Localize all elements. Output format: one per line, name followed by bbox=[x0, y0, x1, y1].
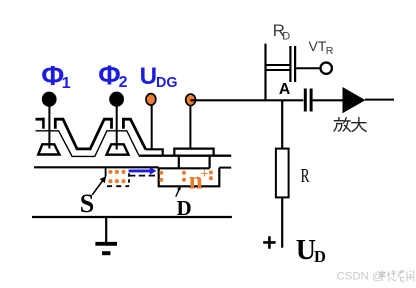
node UDG label bbox=[140, 63, 178, 91]
svg-text:1: 1 bbox=[62, 75, 71, 92]
RD label bbox=[273, 21, 291, 42]
wire UDG bbox=[151, 106, 153, 150]
wire capacitor to amplifier bbox=[313, 99, 343, 101]
amplifier output wire bbox=[365, 99, 394, 101]
reset transistor gate plate bbox=[294, 46, 296, 82]
S pointer arrow bbox=[92, 181, 102, 195]
wire output node to diffusion bbox=[189, 106, 191, 149]
electrode ribbon 2 (thick outline) bbox=[123, 119, 145, 149]
ground bar 1 bbox=[95, 242, 117, 246]
amplifier label (fang da) bbox=[334, 117, 366, 131]
n+ label bbox=[189, 165, 209, 194]
svg-text:Φ: Φ bbox=[98, 60, 120, 91]
reset transistor VTR source/drain stubs bbox=[266, 64, 291, 66]
electrode ribbons bottom boundary (thin line) bbox=[36, 131, 139, 157]
n+ diffusion box bbox=[159, 167, 220, 186]
coupling capacitor C bbox=[304, 89, 307, 112]
semiconductor surface line bbox=[34, 166, 159, 168]
terminal dot Phi1 bbox=[43, 93, 56, 106]
svg-text:D: D bbox=[314, 247, 326, 266]
wire Phi2 bbox=[116, 106, 118, 150]
svg-text:R: R bbox=[301, 165, 311, 187]
terminal dot output node bbox=[186, 94, 196, 106]
node Phi1 label bbox=[41, 60, 71, 92]
VTR label bbox=[309, 38, 334, 57]
svg-text:A: A bbox=[279, 81, 290, 98]
svg-text:D: D bbox=[282, 30, 290, 42]
resistor R lead top bbox=[281, 100, 283, 148]
contact window right edge bbox=[209, 156, 211, 169]
VTR gate terminal circle bbox=[321, 62, 332, 73]
svg-text:2: 2 bbox=[119, 74, 128, 91]
reset transistor gate lead bbox=[296, 67, 321, 69]
UD plus sign bbox=[263, 236, 275, 249]
svg-text:R: R bbox=[326, 45, 334, 57]
output gate electrode (foot) bbox=[145, 149, 162, 155]
dashed transfer line bbox=[129, 175, 156, 177]
charge packet dashed box (S) bbox=[106, 168, 129, 186]
watermark CSDN bbox=[337, 271, 384, 283]
output node line bbox=[190, 99, 303, 101]
svg-text:DG: DG bbox=[156, 75, 177, 91]
svg-text:VT: VT bbox=[309, 38, 327, 54]
ground stem bbox=[105, 217, 107, 244]
charge dots in S box bbox=[108, 170, 125, 183]
lower gate electrode 1 (trapezoid) bbox=[38, 144, 59, 154]
terminal dot Phi2 bbox=[110, 93, 123, 106]
D pointer line bbox=[176, 188, 180, 197]
drain metal contact (hat) bbox=[174, 149, 213, 156]
watermark hanzi bbox=[379, 270, 415, 282]
RD drain wire bbox=[264, 44, 266, 101]
resistor R label bbox=[301, 165, 311, 187]
charge dots in n+ region bbox=[159, 170, 213, 182]
svg-text:CSDN @: CSDN @ bbox=[337, 271, 384, 283]
svg-text:+: + bbox=[201, 166, 209, 181]
electrode ribbon 0 end cap bbox=[42, 118, 45, 129]
substrate bottom line bbox=[32, 216, 232, 218]
node Phi2 label bbox=[98, 60, 127, 91]
resistor R body bbox=[276, 149, 289, 198]
amplifier U1 (triangle) bbox=[343, 87, 366, 113]
svg-text:D: D bbox=[177, 196, 192, 220]
svg-text:U: U bbox=[140, 63, 157, 90]
surface stub right of diffusion bbox=[219, 167, 231, 169]
ground bar 2 bbox=[102, 251, 110, 255]
reset transistor channel plate bbox=[289, 46, 291, 82]
lower gate electrode 2 (trapezoid) bbox=[107, 144, 129, 154]
wire Phi1 bbox=[48, 106, 50, 149]
terminal dot UDG bbox=[146, 94, 156, 106]
UD label bbox=[296, 235, 326, 266]
electrode ribbon 0 top edge bbox=[36, 118, 44, 121]
svg-text:S: S bbox=[80, 189, 94, 218]
resistor R lead bottom bbox=[281, 197, 283, 247]
svg-text:U: U bbox=[296, 235, 316, 266]
electrode bottom ledge line bbox=[139, 155, 232, 157]
contact window left edge bbox=[178, 156, 180, 169]
transfer arrow (blue) bbox=[129, 167, 157, 175]
electrode ribbon 1 (thick outline) bbox=[55, 119, 111, 149]
